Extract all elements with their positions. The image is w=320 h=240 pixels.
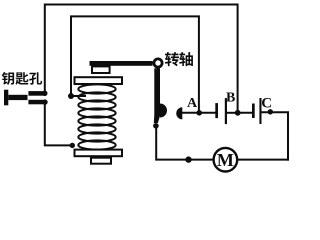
pivot bearing circle [154,59,162,67]
armature top bar [90,61,153,66]
contact plate AB thick [215,103,218,118]
junction coil bottom dot [70,143,75,148]
armature tip dot [153,123,159,129]
motor M circle [214,148,238,172]
switch S1 upper contact [28,91,45,96]
switch S1 key bar [4,90,28,106]
fixed contact half-disc [176,107,182,119]
wire rail plate to B [227,112,238,114]
electromagnet core top cap [92,66,110,73]
wire bottom right to motor [238,159,288,161]
wire rail plate to C corner [262,112,289,159]
contact plate BC thin tall [259,98,261,124]
coil L1 winding [78,84,115,149]
wire contact rail A [182,112,215,114]
contact plate AB thin tall [225,98,227,124]
wire outer loop top [45,5,238,112]
junction node A dot [196,110,202,116]
label keyhole 钥匙孔 [2,72,42,85]
wire inner loop top [71,16,199,112]
junction node C dot [268,109,273,114]
junction upper key dot [42,91,47,96]
svg-text:C: C [261,96,272,112]
label pivot 转轴 [165,52,193,66]
wire coil top stub [71,95,85,97]
electromagnet bottom flange [75,150,123,157]
junction lower key dot [42,99,47,104]
switch S1 lower contact [28,100,45,105]
wire key to coil bottom [45,103,73,145]
contact plate BC thick [252,104,255,119]
electromagnet top flange [75,77,123,84]
wire rail B to plate [238,112,252,114]
armature moving contact blob [160,104,167,118]
electromagnet core bottom cap [91,158,111,164]
svg-text:M: M [217,150,234,170]
junction node B dot [235,110,241,116]
armature vertical bar [154,68,160,123]
junction bottom wire dot [185,156,191,162]
wire motor to armature [156,127,212,160]
junction coil top dot [68,93,74,99]
svg-text:B: B [226,90,235,105]
svg-text:A: A [187,96,198,111]
